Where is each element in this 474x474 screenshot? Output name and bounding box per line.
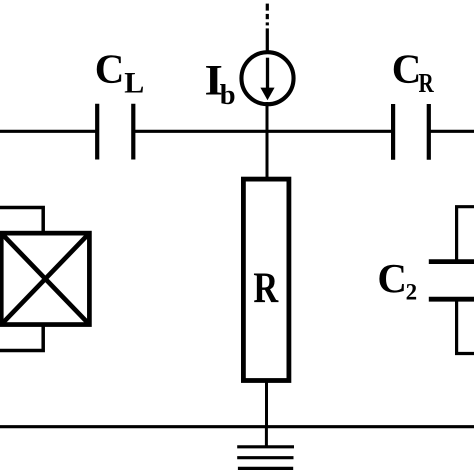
wire: bottom ground bus <box>0 425 474 428</box>
label I_b <box>205 57 236 111</box>
current source Ib <box>241 52 293 104</box>
svg-text:2: 2 <box>406 280 418 305</box>
ground <box>237 427 294 468</box>
wire: dashed lead above current source <box>266 4 269 26</box>
wire: top rail right segment <box>430 130 474 133</box>
wire: top rail middle segment <box>134 130 392 133</box>
wire: C2 top lead <box>457 207 474 261</box>
svg-text:C: C <box>377 255 407 301</box>
wire: top rail left segment <box>0 130 96 133</box>
resistor R <box>243 179 289 380</box>
capacitor CR <box>393 104 429 160</box>
svg-text:R: R <box>253 264 279 311</box>
wire: resistor to ground bus <box>265 380 268 428</box>
svg-text:b: b <box>220 80 236 111</box>
svg-text:L: L <box>124 67 144 100</box>
label C_L <box>95 45 145 99</box>
wire: junction top lead <box>0 208 43 233</box>
capacitor CL <box>97 104 133 160</box>
svg-text:C: C <box>392 46 422 92</box>
wire: C2 bottom lead <box>457 300 474 354</box>
label C_R <box>392 46 434 99</box>
wire: current source to resistor <box>266 102 269 179</box>
label R <box>253 264 279 311</box>
capacitor C2 <box>429 262 474 300</box>
label C_2 <box>377 255 417 305</box>
wire: junction bottom lead <box>0 326 43 351</box>
svg-text:R: R <box>419 69 435 99</box>
wire: solid lead above current source <box>266 28 269 53</box>
josephson junction J1 (crossed box) <box>1 233 89 324</box>
svg-text:C: C <box>95 45 125 91</box>
